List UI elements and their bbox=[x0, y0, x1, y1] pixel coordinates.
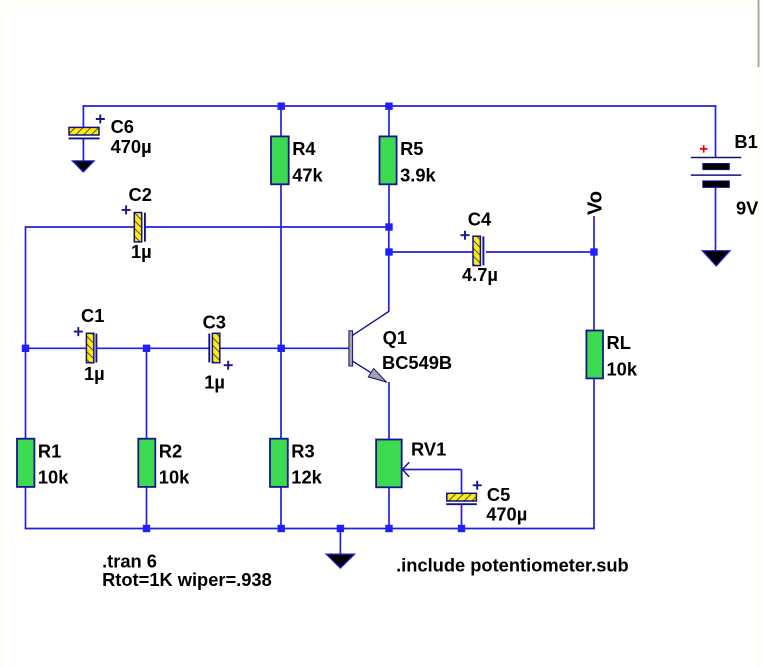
wire C2 left segment bbox=[26, 226, 135, 228]
resistor R3 bbox=[270, 439, 323, 488]
wire R2 bottom stem bbox=[146, 487, 148, 529]
resistor R2 bbox=[138, 439, 190, 488]
window edge line bbox=[758, 0, 760, 67]
svg-text:R3: R3 bbox=[291, 440, 314, 461]
svg-text:RV1: RV1 bbox=[411, 438, 446, 459]
wire C2 right segment to collector node bbox=[146, 226, 389, 228]
svg-text:3.9k: 3.9k bbox=[400, 164, 436, 185]
capacitor C6 bbox=[69, 115, 152, 158]
svg-text:470µ: 470µ bbox=[111, 136, 152, 157]
svg-text:RL: RL bbox=[607, 332, 631, 353]
resistor R1 bbox=[17, 439, 69, 488]
svg-text:9V: 9V bbox=[736, 198, 759, 219]
wire base segment bbox=[281, 347, 349, 349]
capacitor C3 bbox=[203, 312, 233, 393]
wire bottom rail bbox=[25, 528, 595, 530]
svg-text:R4: R4 bbox=[292, 138, 316, 159]
junction node top rail R5 bbox=[385, 103, 392, 110]
svg-text:C4: C4 bbox=[468, 209, 492, 230]
wire R2 node to C3 bbox=[147, 347, 209, 349]
junction node R3 top bbox=[278, 345, 285, 352]
svg-text:10k: 10k bbox=[159, 467, 190, 488]
wire ground stem bbox=[339, 529, 341, 555]
wire C5 bottom stem bbox=[461, 505, 463, 530]
svg-text:47k: 47k bbox=[292, 164, 323, 185]
junction node R3 bottom bbox=[278, 525, 285, 532]
battery B1 bbox=[691, 131, 759, 266]
wire C4 right segment bbox=[486, 251, 594, 253]
wire left rail bbox=[25, 226, 27, 439]
wire C6 top stem bbox=[82, 105, 84, 127]
junction node Vo bbox=[590, 248, 597, 255]
junction node R2 top bbox=[143, 345, 150, 352]
junction node R2 bottom bbox=[143, 525, 150, 532]
wire C1 to R2 node bbox=[97, 347, 147, 349]
wire R4 top stem bbox=[280, 106, 282, 136]
svg-text:B1: B1 bbox=[734, 131, 757, 152]
svg-text:C2: C2 bbox=[129, 184, 152, 205]
capacitor C2 bbox=[122, 184, 152, 262]
svg-text:10k: 10k bbox=[607, 358, 638, 379]
capacitor C5 bbox=[446, 481, 527, 525]
svg-text:R2: R2 bbox=[159, 440, 182, 461]
svg-text:C5: C5 bbox=[487, 484, 510, 505]
wire Vo stem bbox=[593, 216, 595, 252]
wire C1 left segment bbox=[26, 347, 87, 349]
svg-text:4.7µ: 4.7µ bbox=[462, 264, 498, 285]
svg-text:C1: C1 bbox=[81, 305, 104, 326]
junction node ground bbox=[337, 525, 344, 532]
ground main bbox=[326, 554, 355, 568]
wire RL bottom to bottom rail corner bbox=[593, 378, 595, 529]
svg-text:470µ: 470µ bbox=[486, 504, 527, 525]
wire R5 top stem bbox=[388, 106, 390, 136]
wire C3 to base node bbox=[220, 347, 281, 349]
wire battery top stem bbox=[715, 105, 717, 158]
svg-text:R5: R5 bbox=[400, 138, 423, 159]
wire top rail bbox=[83, 105, 715, 107]
wire R1 bottom stem bbox=[25, 487, 27, 529]
svg-text:Rtot=1K wiper=.938: Rtot=1K wiper=.938 bbox=[102, 569, 272, 590]
wire RL top stem bbox=[593, 252, 595, 331]
ground C6 bbox=[72, 161, 94, 172]
junction node collector upper bbox=[385, 223, 392, 230]
svg-text:C6: C6 bbox=[111, 116, 134, 137]
junction node C5 bottom bbox=[458, 525, 465, 532]
capacitor C4 bbox=[461, 209, 498, 286]
resistor R4 bbox=[271, 136, 324, 185]
wire collector vertical bbox=[388, 227, 390, 312]
svg-text:1µ: 1µ bbox=[131, 241, 152, 262]
svg-text:C3: C3 bbox=[203, 312, 226, 333]
resistor RL bbox=[586, 331, 637, 380]
wire RV1 bottom stem bbox=[388, 487, 390, 529]
resistor R5 bbox=[380, 136, 437, 185]
wire C4 left segment bbox=[389, 251, 473, 253]
wire RV1 wiper horizontal bbox=[403, 469, 462, 471]
svg-text:10k: 10k bbox=[38, 467, 69, 488]
svg-text:BC549B: BC549B bbox=[382, 352, 452, 373]
wire R4 bottom to R3 top bbox=[280, 184, 282, 438]
svg-text:Q1: Q1 bbox=[383, 327, 407, 348]
transistor Q1 bbox=[349, 312, 452, 383]
potentiometer RV1 bbox=[376, 438, 446, 487]
capacitor C1 bbox=[74, 305, 105, 384]
wire R3 bottom stem bbox=[280, 487, 282, 529]
wire C6 bottom stem bbox=[82, 139, 84, 162]
junction node R1 top bbox=[22, 345, 29, 352]
svg-text:1µ: 1µ bbox=[84, 363, 105, 384]
wire R2 top stem bbox=[146, 348, 148, 438]
svg-text:Vo: Vo bbox=[585, 191, 607, 215]
svg-text:12k: 12k bbox=[291, 467, 322, 488]
junction node collector lower bbox=[385, 248, 392, 255]
svg-text:1µ: 1µ bbox=[204, 372, 225, 393]
junction node top rail R4 bbox=[278, 103, 285, 110]
wire battery bottom stem bbox=[715, 188, 717, 252]
wire R5 bottom stem bbox=[388, 184, 390, 227]
junction node RV1 bottom bbox=[385, 525, 392, 532]
wire wiper to C5 bbox=[461, 470, 463, 494]
wire emitter to RV1 bbox=[388, 382, 390, 440]
svg-text:R1: R1 bbox=[38, 440, 61, 461]
svg-text:.include potentiometer.sub: .include potentiometer.sub bbox=[396, 555, 629, 576]
